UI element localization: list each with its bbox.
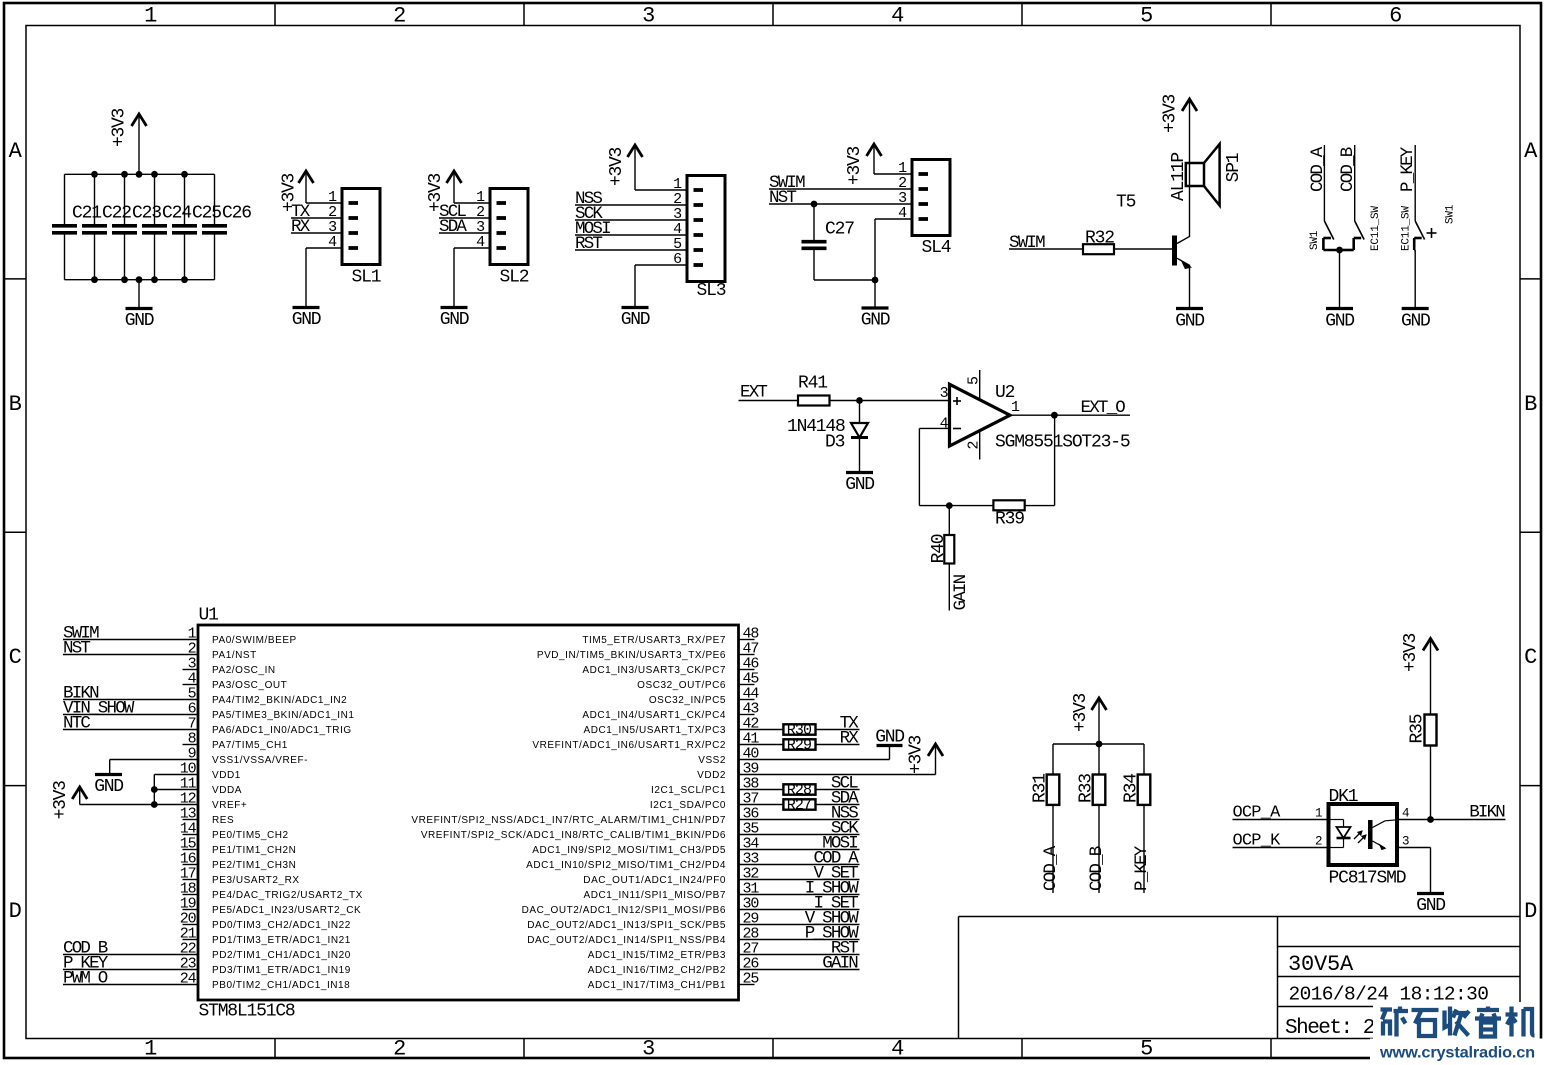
svg-text:C: C bbox=[1524, 645, 1537, 670]
svg-text:R27: R27 bbox=[787, 797, 811, 814]
svg-text:ADC1_IN9/SPI2_MOSI/TIM1_CH3/PD: ADC1_IN9/SPI2_MOSI/TIM1_CH3/PD5 bbox=[532, 845, 726, 856]
svg-text:2: 2 bbox=[393, 4, 406, 29]
svg-text:PD3/TIM1_ETR/ADC1_IN19: PD3/TIM1_ETR/ADC1_IN19 bbox=[212, 965, 351, 976]
svg-text:PVD_IN/TIM5_BKIN/USART3_TX/PE6: PVD_IN/TIM5_BKIN/USART3_TX/PE6 bbox=[537, 650, 726, 661]
svg-text:NTC: NTC bbox=[63, 714, 90, 734]
svg-text:RES: RES bbox=[212, 815, 234, 826]
svg-text:2: 2 bbox=[1315, 835, 1322, 849]
svg-text:www.crystalradio.cn: www.crystalradio.cn bbox=[1379, 1045, 1535, 1062]
svg-text:R40: R40 bbox=[929, 534, 949, 563]
svg-text:C24: C24 bbox=[162, 204, 191, 224]
svg-text:C25: C25 bbox=[192, 204, 221, 224]
svg-text:R41: R41 bbox=[798, 374, 827, 394]
svg-text:P_KEY: P_KEY bbox=[1398, 146, 1418, 192]
svg-text:C: C bbox=[9, 645, 22, 670]
svg-text:BIKN: BIKN bbox=[1469, 803, 1505, 823]
svg-text:4: 4 bbox=[940, 416, 949, 433]
svg-text:C23: C23 bbox=[132, 204, 161, 224]
svg-text:OSC32_IN/PC5: OSC32_IN/PC5 bbox=[649, 695, 726, 706]
svg-text:+3V3: +3V3 bbox=[906, 736, 926, 775]
svg-text:PA5/TIME3_BKIN/ADC1_IN1: PA5/TIME3_BKIN/ADC1_IN1 bbox=[212, 710, 355, 721]
svg-text:DAC_OUT2/ADC1_IN13/SPI1_SCK/PB: DAC_OUT2/ADC1_IN13/SPI1_SCK/PB5 bbox=[527, 920, 726, 931]
svg-text:SW1: SW1 bbox=[1309, 230, 1321, 250]
svg-text:R39: R39 bbox=[995, 510, 1024, 530]
svg-text:VSS1/VSSA/VREF-: VSS1/VSSA/VREF- bbox=[212, 755, 308, 766]
svg-text:+3V3: +3V3 bbox=[1071, 694, 1091, 733]
svg-text:C22: C22 bbox=[102, 204, 131, 224]
svg-text:PE2/TIM1_CH3N: PE2/TIM1_CH3N bbox=[212, 860, 296, 871]
svg-text:+3V3: +3V3 bbox=[607, 148, 627, 187]
svg-text:GND: GND bbox=[1175, 312, 1204, 332]
svg-text:Sheet: 2: Sheet: 2 bbox=[1285, 1017, 1375, 1040]
svg-text:2: 2 bbox=[393, 1037, 406, 1062]
svg-text:RX: RX bbox=[840, 729, 860, 749]
svg-text:+3V3: +3V3 bbox=[109, 109, 129, 148]
svg-text:3: 3 bbox=[642, 4, 655, 29]
svg-text:VSS2: VSS2 bbox=[698, 755, 726, 766]
svg-text:T5: T5 bbox=[1116, 193, 1136, 213]
svg-text:GND: GND bbox=[621, 310, 650, 330]
svg-text:COD_A: COD_A bbox=[1041, 845, 1061, 891]
svg-text:+3V3: +3V3 bbox=[51, 781, 71, 820]
svg-text:DAC_OUT2/ADC1_IN12/SPI1_MOSI/P: DAC_OUT2/ADC1_IN12/SPI1_MOSI/PB6 bbox=[522, 905, 726, 916]
svg-text:VDDA: VDDA bbox=[212, 785, 242, 796]
svg-text:OCP_K: OCP_K bbox=[1233, 832, 1282, 851]
svg-text:RX: RX bbox=[291, 217, 311, 237]
svg-text:+3V3: +3V3 bbox=[845, 147, 865, 186]
svg-text:PA7/TIM5_CH1: PA7/TIM5_CH1 bbox=[212, 740, 288, 751]
svg-text:5: 5 bbox=[1140, 4, 1153, 29]
svg-text:B: B bbox=[9, 392, 22, 417]
svg-text:DAC_OUT2/ADC1_IN14/SPI1_NSS/PB: DAC_OUT2/ADC1_IN14/SPI1_NSS/PB4 bbox=[527, 935, 726, 946]
svg-text:1: 1 bbox=[144, 4, 157, 29]
svg-text:SGM8551SOT23-5: SGM8551SOT23-5 bbox=[995, 433, 1130, 453]
svg-text:NST: NST bbox=[63, 639, 90, 659]
svg-text:ADC1_IN10/SPI2_MISO/TIM1_CH2/P: ADC1_IN10/SPI2_MISO/TIM1_CH2/PD4 bbox=[526, 860, 726, 871]
svg-text:PB0/TIM2_CH1/ADC1_IN18: PB0/TIM2_CH1/ADC1_IN18 bbox=[212, 980, 350, 991]
svg-text:PE4/DAC_TRIG2/USART2_TX: PE4/DAC_TRIG2/USART2_TX bbox=[212, 890, 363, 901]
svg-text:EXT: EXT bbox=[740, 383, 767, 403]
svg-text:PE5/ADC1_IN23/USART2_CK: PE5/ADC1_IN23/USART2_CK bbox=[212, 905, 361, 916]
svg-text:C21: C21 bbox=[72, 204, 101, 224]
svg-text:GND: GND bbox=[94, 777, 123, 797]
svg-text:SWIM: SWIM bbox=[1009, 233, 1045, 253]
svg-text:R31: R31 bbox=[1031, 774, 1051, 803]
svg-text:SDA: SDA bbox=[831, 789, 859, 809]
svg-text:OCP_A: OCP_A bbox=[1233, 804, 1282, 823]
svg-text:+3V3: +3V3 bbox=[1161, 95, 1181, 134]
svg-text:3: 3 bbox=[1402, 835, 1409, 849]
svg-text:VDD2: VDD2 bbox=[697, 770, 726, 781]
svg-text:A: A bbox=[1524, 139, 1538, 164]
svg-text:P_KEY: P_KEY bbox=[1132, 845, 1152, 891]
svg-text:1: 1 bbox=[1315, 807, 1322, 821]
svg-text:COD_B: COD_B bbox=[1338, 147, 1358, 192]
svg-text:PWM_O: PWM_O bbox=[63, 969, 108, 989]
svg-text:3: 3 bbox=[642, 1037, 655, 1062]
svg-text:5: 5 bbox=[1140, 1037, 1153, 1062]
svg-text:GND: GND bbox=[292, 310, 321, 330]
svg-text:+3V3: +3V3 bbox=[1401, 634, 1421, 673]
svg-text:PA3/OSC_OUT: PA3/OSC_OUT bbox=[212, 680, 287, 691]
svg-text:DAC_OUT1/ADC1_IN24/PF0: DAC_OUT1/ADC1_IN24/PF0 bbox=[583, 875, 726, 886]
svg-text:GND: GND bbox=[125, 311, 154, 331]
svg-text:SL4: SL4 bbox=[922, 238, 951, 258]
svg-text:PE3/USART2_RX: PE3/USART2_RX bbox=[212, 875, 300, 886]
svg-text:OSC32_OUT/PC6: OSC32_OUT/PC6 bbox=[637, 680, 726, 691]
svg-text:VREFINT/SPI2_SCK/ADC1_IN8/RTC_: VREFINT/SPI2_SCK/ADC1_IN8/RTC_CALIB/TIM1… bbox=[421, 830, 726, 841]
svg-text:PE1/TIM1_CH2N: PE1/TIM1_CH2N bbox=[212, 845, 296, 856]
svg-text:D: D bbox=[1524, 899, 1537, 924]
svg-text:SL1: SL1 bbox=[352, 268, 381, 288]
svg-text:I2C1_SDA/PC0: I2C1_SDA/PC0 bbox=[650, 800, 726, 811]
svg-text:PA0/SWIM/BEEP: PA0/SWIM/BEEP bbox=[212, 635, 297, 646]
svg-text:PE0/TIM5_CH2: PE0/TIM5_CH2 bbox=[212, 830, 289, 841]
svg-text:EC11_SW: EC11_SW bbox=[1400, 206, 1412, 251]
svg-text:I2C1_SCL/PC1: I2C1_SCL/PC1 bbox=[651, 785, 726, 796]
svg-text:ADC1_IN3/USART3_CK/PC7: ADC1_IN3/USART3_CK/PC7 bbox=[582, 665, 726, 676]
svg-text:PA1/NST: PA1/NST bbox=[212, 650, 257, 661]
svg-text:EC11_SW: EC11_SW bbox=[1370, 206, 1382, 251]
svg-text:AL11P: AL11P bbox=[1169, 153, 1189, 201]
svg-text:ADC1_IN15/TIM2_ETR/PB3: ADC1_IN15/TIM2_ETR/PB3 bbox=[588, 950, 726, 961]
svg-text:GND: GND bbox=[875, 728, 904, 748]
svg-text:COD_B: COD_B bbox=[1087, 846, 1107, 891]
svg-text:GND: GND bbox=[440, 310, 469, 330]
svg-text:NST: NST bbox=[769, 188, 796, 208]
svg-text:ADC1_IN4/USART1_CK/PC4: ADC1_IN4/USART1_CK/PC4 bbox=[582, 710, 726, 721]
svg-text:VDD1: VDD1 bbox=[212, 770, 241, 781]
svg-text:VREF+: VREF+ bbox=[212, 800, 247, 811]
svg-text:R32: R32 bbox=[1085, 229, 1114, 249]
svg-text:4: 4 bbox=[1402, 807, 1409, 821]
svg-text:PA2/OSC_IN: PA2/OSC_IN bbox=[212, 665, 276, 676]
svg-text:4: 4 bbox=[891, 4, 904, 29]
svg-text:4: 4 bbox=[891, 1037, 904, 1062]
svg-text:R29: R29 bbox=[787, 737, 811, 754]
svg-text:TIM5_ETR/USART3_RX/PE7: TIM5_ETR/USART3_RX/PE7 bbox=[582, 635, 726, 646]
svg-text:5: 5 bbox=[966, 376, 983, 385]
svg-text:D3: D3 bbox=[825, 433, 845, 453]
svg-text:VREFINT/ADC1_IN6/USART1_RX/PC2: VREFINT/ADC1_IN6/USART1_RX/PC2 bbox=[532, 740, 726, 751]
svg-text:RST: RST bbox=[575, 234, 602, 254]
svg-text:SL2: SL2 bbox=[500, 268, 529, 288]
svg-text:PD0/TIM3_CH2/ADC1_IN22: PD0/TIM3_CH2/ADC1_IN22 bbox=[212, 920, 351, 931]
svg-text:SW1: SW1 bbox=[1445, 204, 1457, 224]
svg-text:C26: C26 bbox=[222, 204, 251, 224]
svg-text:30V5A: 30V5A bbox=[1288, 952, 1354, 977]
svg-text:U1: U1 bbox=[199, 606, 219, 626]
svg-text:R33: R33 bbox=[1077, 774, 1097, 803]
svg-text:SDA: SDA bbox=[439, 217, 467, 237]
svg-text:ADC1_IN17/TIM3_CH1/PB1: ADC1_IN17/TIM3_CH1/PB1 bbox=[588, 980, 726, 991]
svg-text:3: 3 bbox=[940, 385, 949, 402]
svg-text:R34: R34 bbox=[1122, 774, 1142, 803]
svg-text:2: 2 bbox=[966, 441, 983, 449]
svg-text:6: 6 bbox=[1389, 4, 1402, 29]
svg-text:R35: R35 bbox=[1407, 714, 1427, 743]
svg-text:GND: GND bbox=[1416, 896, 1445, 916]
svg-text:PC817SMD: PC817SMD bbox=[1329, 869, 1406, 889]
svg-text:GND: GND bbox=[861, 311, 890, 331]
svg-text:1: 1 bbox=[1011, 399, 1020, 416]
svg-text:STM8L151C8: STM8L151C8 bbox=[199, 1002, 295, 1022]
svg-text:GND: GND bbox=[1325, 312, 1354, 332]
svg-text:1: 1 bbox=[144, 1037, 157, 1062]
svg-text:A: A bbox=[9, 139, 23, 164]
svg-text:GAIN: GAIN bbox=[951, 574, 971, 610]
svg-text:COD_A: COD_A bbox=[1308, 146, 1328, 192]
svg-text:ADC1_IN16/TIM2_CH2/PB2: ADC1_IN16/TIM2_CH2/PB2 bbox=[588, 965, 726, 976]
svg-text:D: D bbox=[9, 899, 22, 924]
svg-text:PA6/ADC1_IN0/ADC1_TRIG: PA6/ADC1_IN0/ADC1_TRIG bbox=[212, 725, 352, 736]
svg-text:DK1: DK1 bbox=[1329, 787, 1358, 807]
svg-text:EXT_O: EXT_O bbox=[1081, 398, 1126, 418]
svg-text:ADC1_IN5/USART1_TX/PC3: ADC1_IN5/USART1_TX/PC3 bbox=[583, 725, 726, 736]
svg-text:PD1/TIM3_ETR/ADC1_IN21: PD1/TIM3_ETR/ADC1_IN21 bbox=[212, 935, 351, 946]
svg-text:PD2/TIM1_CH1/ADC1_IN20: PD2/TIM1_CH1/ADC1_IN20 bbox=[212, 950, 351, 961]
svg-text:SP1: SP1 bbox=[1224, 153, 1244, 182]
svg-text:C27: C27 bbox=[825, 220, 854, 240]
svg-text:B: B bbox=[1524, 392, 1537, 417]
svg-text:GND: GND bbox=[1401, 312, 1430, 332]
svg-text:VREFINT/SPI2_NSS/ADC1_IN7/RTC_: VREFINT/SPI2_NSS/ADC1_IN7/RTC_ALARM/TIM1… bbox=[411, 815, 726, 826]
svg-text:ADC1_IN11/SPI1_MISO/PB7: ADC1_IN11/SPI1_MISO/PB7 bbox=[583, 890, 726, 901]
svg-text:PA4/TIM2_BKIN/ADC1_IN2: PA4/TIM2_BKIN/ADC1_IN2 bbox=[212, 695, 347, 706]
svg-text:GND: GND bbox=[845, 475, 874, 495]
svg-text:SL3: SL3 bbox=[697, 281, 726, 301]
